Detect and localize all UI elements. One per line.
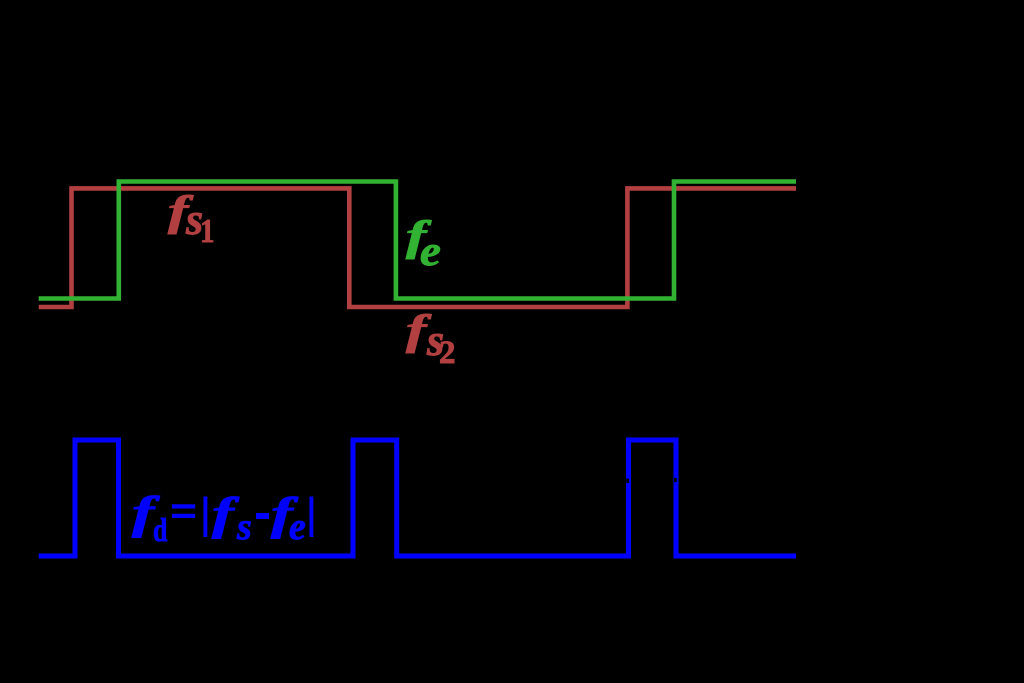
node notch left on pulse 3 <box>626 479 629 483</box>
label fs1 <box>168 191 188 233</box>
node notch right on pulse 3 <box>674 478 677 482</box>
label fs2 <box>406 310 426 352</box>
wire: green square wave f_e <box>39 182 796 299</box>
wire: red square wave f_s <box>39 188 796 307</box>
minus sign <box>256 513 269 519</box>
label fd formula <box>132 490 154 536</box>
label fe <box>406 216 426 258</box>
wire: blue difference wave f_d <box>39 440 796 556</box>
